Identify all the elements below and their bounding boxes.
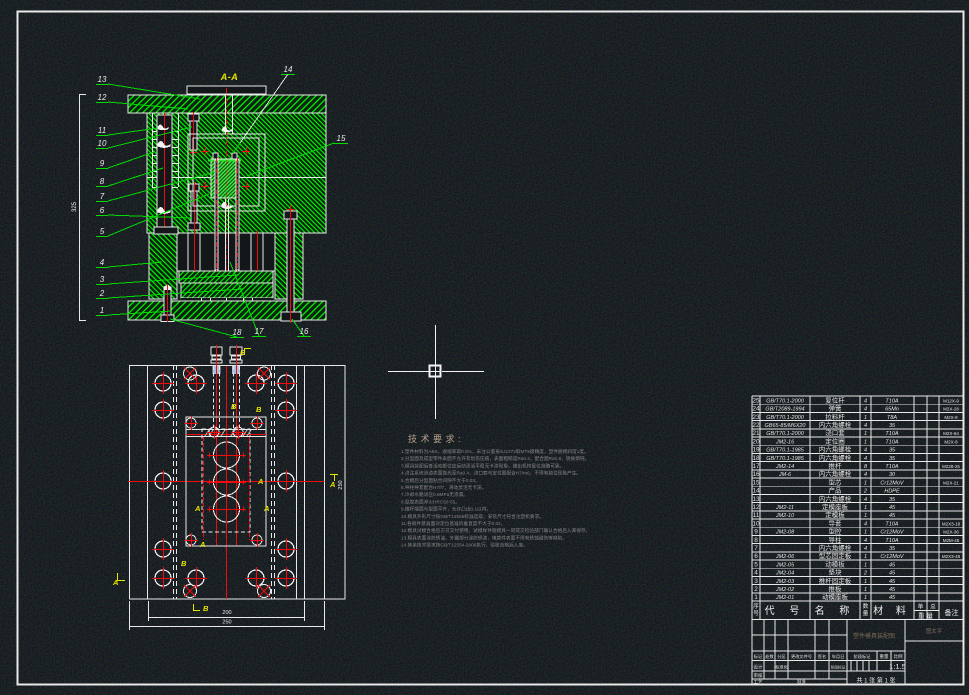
- svg-text:JM-6: JM-6: [778, 472, 792, 478]
- title block texts: [754, 653, 906, 685]
- svg-text:65Mn: 65Mn: [885, 407, 899, 413]
- moving clamp plate outline (plan): [130, 366, 346, 600]
- svg-text:250: 250: [222, 620, 231, 626]
- cavity circles: [207, 438, 246, 472]
- svg-text:T10A: T10A: [885, 464, 898, 470]
- svg-text:T10A: T10A: [885, 431, 898, 437]
- leader 7: [96, 172, 215, 202]
- svg-text:工艺: 工艺: [754, 679, 763, 684]
- svg-text:1: 1: [864, 513, 867, 519]
- svg-text:JM2-03: JM2-03: [775, 579, 795, 585]
- svg-text:12.模具试模合格后方可交付使用，试模样件随模具一同提交检验: 12.模具试模合格后方可交付使用，试模样件随模具一同提交检验部门确认合格后入库保…: [401, 527, 590, 534]
- bolt hole circles (plan): [152, 372, 174, 394]
- svg-text:4.浇注系统流道表面抛光至Ra0.4，浇口套与定位圈配合H7: 4.浇注系统流道表面抛光至Ra0.4，浇口套与定位圈配合H7/m6，不得有错位现…: [401, 470, 581, 477]
- leader 6: [96, 206, 192, 218]
- sprue bolt right (plan): [230, 345, 242, 546]
- svg-text:型芯固定板: 型芯固定板: [819, 551, 852, 560]
- svg-text:重量: 重量: [880, 653, 889, 660]
- svg-text:T8A: T8A: [887, 415, 897, 421]
- svg-text:比例: 比例: [894, 653, 903, 660]
- svg-text:7: 7: [100, 192, 105, 201]
- svg-text:签名: 签名: [818, 653, 826, 660]
- svg-text:总: 总: [930, 603, 936, 611]
- cavity plate (plan inner): [186, 417, 266, 546]
- red cooling channel marks: [201, 147, 250, 190]
- svg-text:2.分型面及成型零件表面不允许有划伤压痕，表面粗糙度Ra0.: 2.分型面及成型零件表面不允许有划伤压痕，表面粗糙度Ra0.4，配合面Ra0.8…: [401, 455, 589, 462]
- svg-text:设计: 设计: [754, 664, 763, 671]
- svg-text:14: 14: [284, 65, 293, 74]
- svg-text:JM2-16: JM2-16: [775, 439, 795, 445]
- plan dimension right: [338, 480, 344, 489]
- svg-text:共 1 张 第 1 张: 共 1 张 第 1 张: [856, 677, 895, 685]
- svg-text:号: 号: [753, 610, 759, 617]
- leader 2: [96, 289, 243, 299]
- svg-text:4: 4: [754, 570, 758, 577]
- svg-text:导套: 导套: [829, 518, 843, 527]
- return pin circles (tilted cross): [184, 367, 197, 380]
- svg-text:M2X-21: M2X-21: [943, 480, 959, 485]
- BOM grid: [752, 396, 964, 620]
- svg-text:内六角螺栓: 内六角螺栓: [819, 543, 852, 552]
- svg-text:M228-25: M228-25: [942, 464, 960, 469]
- svg-text:M2X3-48: M2X3-48: [942, 554, 961, 559]
- svg-text:35: 35: [889, 423, 896, 429]
- runner band hatch marks: [205, 430, 251, 436]
- svg-text:定模座板: 定模座板: [822, 502, 849, 511]
- leader 3: [96, 275, 238, 285]
- svg-text:浇口套: 浇口套: [825, 428, 845, 437]
- svg-text:1:1.5: 1:1.5: [889, 662, 906, 671]
- guide bushing: [152, 113, 179, 188]
- svg-text:JM2-11: JM2-11: [775, 505, 794, 511]
- runner centerlines (red): [186, 435, 266, 541]
- svg-text:45: 45: [889, 513, 896, 519]
- svg-text:4: 4: [864, 472, 867, 478]
- svg-text:标记: 标记: [754, 653, 763, 660]
- svg-text:1: 1: [864, 505, 867, 511]
- svg-text:45: 45: [889, 579, 896, 585]
- fixed clamping plate (top plate): [110, 95, 343, 113]
- core pin left: [215, 158, 218, 271]
- svg-text:图太平: 图太平: [926, 627, 943, 635]
- svg-text:名 称: 名 称: [815, 604, 856, 617]
- svg-text:13: 13: [752, 496, 760, 503]
- svg-text:推杆固定板: 推杆固定板: [819, 576, 852, 585]
- svg-text:A: A: [194, 504, 200, 513]
- svg-text:250: 250: [338, 480, 344, 489]
- leader 9: [96, 152, 154, 169]
- cavity insert frame: [188, 134, 265, 211]
- svg-text:2: 2: [754, 586, 758, 593]
- drawing title (dim): [853, 632, 895, 640]
- svg-text:导柱: 导柱: [829, 535, 843, 544]
- svg-text:内六角螺栓: 内六角螺栓: [819, 494, 852, 503]
- svg-text:GB/T2089-1994: GB/T2089-1994: [765, 407, 804, 413]
- svg-text:T10A: T10A: [885, 521, 898, 527]
- svg-text:T10A: T10A: [885, 538, 898, 544]
- svg-text:11: 11: [753, 512, 760, 519]
- svg-text:4: 4: [100, 258, 105, 267]
- svg-text:5: 5: [754, 561, 758, 568]
- svg-text:型芯: 型芯: [829, 477, 843, 486]
- svg-text:GB/T70.1-1985: GB/T70.1-1985: [766, 456, 805, 462]
- technical requirements notes: [401, 448, 590, 549]
- bottom left bolt: [161, 284, 174, 322]
- support pillar (right): [281, 205, 301, 323]
- svg-text:200: 200: [222, 610, 231, 616]
- plate edge lines (plan): [148, 365, 325, 599]
- svg-text:B: B: [203, 604, 209, 613]
- svg-text:325: 325: [72, 201, 78, 212]
- svg-text:垫块: 垫块: [829, 568, 843, 577]
- svg-text:年月日: 年月日: [832, 653, 845, 660]
- svg-text:动模板: 动模板: [825, 559, 845, 568]
- ejector retainer plate: [167, 271, 284, 283]
- svg-text:单: 单: [918, 603, 924, 611]
- section letter ticks: [117, 348, 338, 611]
- svg-text:9: 9: [754, 529, 758, 536]
- locating ring (top): [187, 86, 266, 94]
- return pin right: [251, 231, 263, 271]
- svg-text:标准化: 标准化: [775, 664, 788, 671]
- leader 16: [292, 319, 311, 337]
- svg-text:6: 6: [100, 206, 105, 215]
- guide pillar: [154, 113, 178, 234]
- svg-text:1: 1: [864, 480, 867, 486]
- svg-text:Cr12MoV: Cr12MoV: [880, 554, 905, 560]
- svg-text:A: A: [257, 477, 263, 486]
- leader 13: [96, 75, 200, 99]
- svg-text:GB65-85/M6X20: GB65-85/M6X20: [765, 423, 807, 429]
- svg-text:17: 17: [752, 463, 760, 470]
- svg-text:45: 45: [889, 595, 896, 601]
- svg-text:9: 9: [100, 159, 105, 168]
- plan dimensions bottom: [129, 601, 325, 630]
- svg-text:12: 12: [98, 93, 107, 102]
- svg-text:JM2-08: JM2-08: [775, 530, 795, 536]
- section title A-A: [220, 72, 239, 82]
- ejector plate hidden edges (dashed): [174, 365, 275, 599]
- svg-text:8: 8: [100, 177, 105, 186]
- svg-text:2: 2: [99, 289, 105, 298]
- svg-text:型腔: 型腔: [829, 527, 843, 536]
- svg-text:B: B: [181, 559, 187, 568]
- svg-text:2: 2: [863, 489, 867, 495]
- svg-text:GB/T70.1-2000: GB/T70.1-2000: [766, 415, 805, 421]
- svg-text:11: 11: [98, 126, 106, 135]
- svg-text:处数: 处数: [765, 653, 774, 660]
- svg-text:1.塑件材料为ABS，收缩率取0.5%，未注公差按SJ137: 1.塑件材料为ABS，收缩率取0.5%，未注公差按SJ1372取MT5级精度，塑…: [401, 448, 589, 455]
- svg-text:内六角螺栓: 内六角螺栓: [819, 420, 852, 429]
- svg-text:18: 18: [233, 328, 242, 337]
- svg-text:5.合模后分型面贴合间隙不大于0.03。: 5.合模后分型面贴合间隙不大于0.03。: [401, 477, 480, 484]
- svg-text:5: 5: [100, 227, 105, 236]
- svg-text:3: 3: [100, 275, 105, 284]
- svg-text:15: 15: [752, 479, 760, 486]
- svg-text:1: 1: [864, 554, 867, 560]
- svg-text:15: 15: [337, 134, 346, 143]
- svg-text:7: 7: [754, 545, 758, 552]
- svg-text:4: 4: [864, 521, 867, 527]
- svg-text:审核: 审核: [754, 672, 763, 679]
- ejector space: [177, 233, 275, 271]
- svg-text:8: 8: [754, 537, 758, 544]
- svg-text:1: 1: [864, 579, 867, 585]
- svg-text:13: 13: [98, 75, 107, 84]
- svg-text:10: 10: [752, 520, 760, 527]
- svg-text:3: 3: [754, 578, 758, 585]
- svg-text:45: 45: [889, 571, 896, 577]
- svg-text:技术要求:: 技术要求:: [408, 433, 464, 444]
- svg-text:JM2-04: JM2-04: [775, 571, 794, 577]
- svg-text:M2X-8: M2X-8: [944, 439, 958, 444]
- svg-text:10.模具外形尺寸按GB/T12555标准选取，安装尺寸符合: 10.模具外形尺寸按GB/T12555标准选取，安装尺寸符合注塑机要求。: [401, 513, 544, 520]
- svg-text:M2X-28: M2X-28: [943, 407, 959, 412]
- parting line: [147, 177, 326, 179]
- leader 14: [233, 65, 295, 153]
- svg-text:24: 24: [752, 406, 760, 413]
- svg-text:M2X-64: M2X-64: [943, 431, 959, 436]
- svg-text:复位杆: 复位杆: [825, 395, 845, 404]
- core insert: [172, 153, 277, 198]
- svg-text:量: 量: [863, 610, 869, 617]
- svg-text:JM2-01: JM2-01: [775, 595, 794, 601]
- svg-text:数: 数: [863, 602, 869, 610]
- svg-text:18: 18: [752, 455, 760, 462]
- svg-text:1: 1: [864, 595, 867, 601]
- svg-text:4: 4: [864, 538, 867, 544]
- leader 4: [96, 258, 162, 268]
- svg-text:25: 25: [752, 397, 760, 404]
- svg-text:4: 4: [864, 448, 867, 454]
- svg-text:产品: 产品: [829, 486, 842, 495]
- svg-text:动模座板: 动模座板: [822, 592, 849, 601]
- svg-text:23: 23: [752, 414, 760, 421]
- moving clamping plate (bottom plate): [109, 301, 343, 320]
- svg-text:4: 4: [864, 407, 867, 413]
- left vertical dimension line: [72, 94, 86, 321]
- svg-text:6: 6: [754, 553, 758, 560]
- svg-text:M2X-8: M2X-8: [944, 415, 958, 420]
- leader 18: [170, 319, 244, 338]
- svg-text:推板: 推板: [829, 584, 843, 593]
- svg-text:更改文件号: 更改文件号: [791, 653, 812, 660]
- svg-text:19: 19: [752, 447, 760, 454]
- company cell (dim): [926, 627, 943, 635]
- svg-text:10: 10: [98, 139, 107, 148]
- right spacer block: [209, 233, 364, 299]
- svg-text:35: 35: [889, 546, 896, 552]
- svg-text:30: 30: [889, 472, 896, 478]
- svg-text:内六角螺栓: 内六角螺栓: [819, 453, 852, 462]
- svg-text:M2X-36: M2X-36: [943, 530, 959, 535]
- svg-text:分区: 分区: [777, 653, 785, 660]
- svg-text:A: A: [329, 480, 335, 489]
- svg-text:35: 35: [889, 448, 896, 454]
- svg-text:弹簧: 弹簧: [829, 404, 843, 413]
- svg-text:内六角螺栓: 内六角螺栓: [819, 469, 852, 478]
- svg-text:GB/T70.1-1985: GB/T70.1-1985: [766, 448, 805, 454]
- leader 17: [230, 262, 266, 337]
- svg-text:内六角螺栓: 内六角螺栓: [819, 445, 852, 454]
- svg-text:备注: 备注: [945, 608, 959, 617]
- leader 12: [96, 93, 188, 109]
- svg-text:M12X-9: M12X-9: [943, 398, 959, 403]
- svg-text:45: 45: [889, 505, 896, 511]
- svg-text:8.型腔表面淬火HRC50-55。: 8.型腔表面淬火HRC50-55。: [401, 498, 460, 505]
- leader 11: [96, 126, 158, 136]
- svg-text:推杆: 推杆: [829, 461, 843, 470]
- svg-text:20: 20: [752, 438, 760, 445]
- svg-text:拉料杆: 拉料杆: [825, 412, 845, 421]
- svg-text:2: 2: [863, 571, 867, 577]
- leader 8: [96, 168, 163, 187]
- mold body (A/B plates): [27, 113, 446, 233]
- svg-text:T10A: T10A: [885, 398, 898, 404]
- svg-text:JM2-06: JM2-06: [775, 554, 795, 560]
- cavity plate corner screws: [184, 416, 198, 430]
- svg-text:GB/T70.1-2000: GB/T70.1-2000: [766, 431, 805, 437]
- svg-text:阶段标记: 阶段标记: [831, 665, 846, 670]
- svg-text:序: 序: [753, 602, 759, 610]
- svg-text:B: B: [231, 402, 237, 411]
- svg-text:JM2-05: JM2-05: [775, 562, 795, 568]
- plan centerlines: [128, 366, 325, 599]
- runner hidden outline (dashed rect): [202, 429, 250, 532]
- svg-text:JM2-10: JM2-10: [775, 513, 795, 519]
- return pin left: [188, 231, 200, 271]
- BOM rows text: [752, 395, 960, 601]
- svg-text:塑件模具装配图: 塑件模具装配图: [853, 632, 895, 640]
- svg-text:9.推杆端面与型面平齐，允许凸出0.1以内。: 9.推杆端面与型面平齐，允许凸出0.1以内。: [401, 506, 491, 513]
- svg-text:17: 17: [255, 327, 264, 336]
- BOM header row: [753, 601, 958, 620]
- svg-text:Cr12MoV: Cr12MoV: [880, 480, 905, 486]
- sprue bushing: [222, 88, 233, 209]
- svg-text:代 号: 代 号: [765, 605, 806, 617]
- svg-text:定位圈: 定位圈: [825, 436, 845, 445]
- left spacer block: [83, 233, 238, 299]
- svg-text:1: 1: [864, 562, 867, 568]
- svg-text:1: 1: [864, 439, 867, 445]
- svg-text:21: 21: [752, 430, 760, 437]
- svg-text:16: 16: [300, 327, 309, 336]
- crosshair cursor: [388, 325, 484, 419]
- svg-text:1: 1: [864, 431, 867, 437]
- svg-text:1: 1: [864, 587, 867, 593]
- svg-text:35: 35: [889, 497, 896, 503]
- svg-text:1: 1: [864, 530, 867, 536]
- socket bolt (upper left): [188, 112, 199, 156]
- leader 5: [96, 194, 209, 237]
- svg-text:14.其余技术要求按GB/T12554-2006执行，验收合: 14.其余技术要求按GB/T12554-2006执行，验收合格后入库。: [401, 542, 528, 549]
- svg-text:4: 4: [864, 456, 867, 462]
- svg-text:11.各板件基准面对定位基准的垂直度不大于0.02。: 11.各板件基准面对定位基准的垂直度不大于0.02。: [401, 520, 505, 527]
- svg-text:6.导柱导套配合H7/f7，滑动灵活无卡滞。: 6.导柱导套配合H7/f7，滑动灵活无卡滞。: [401, 484, 486, 491]
- sprue bolt left (plan): [211, 345, 222, 546]
- leader 10: [96, 127, 192, 149]
- svg-text:JM2-14: JM2-14: [775, 464, 794, 470]
- svg-text:批准: 批准: [797, 678, 806, 685]
- svg-text:4: 4: [864, 546, 867, 552]
- svg-text:GB/T70.1-2000: GB/T70.1-2000: [766, 398, 805, 404]
- svg-text:Cr12MoV: Cr12MoV: [880, 530, 905, 536]
- svg-text:1: 1: [100, 306, 104, 315]
- ejector plate: [166, 283, 286, 298]
- svg-text:M2M-45: M2M-45: [943, 538, 960, 543]
- svg-text:35: 35: [889, 456, 896, 462]
- svg-text:A-A: A-A: [220, 72, 239, 82]
- svg-text:A: A: [199, 540, 205, 549]
- title block grid: [752, 620, 964, 685]
- socket bolt (mid left): [188, 182, 200, 232]
- svg-text:1: 1: [864, 415, 867, 421]
- svg-text:1: 1: [754, 594, 758, 601]
- svg-text:JM2-02: JM2-02: [775, 587, 794, 593]
- svg-text:重量: 重量: [918, 612, 935, 620]
- svg-text:3.模具装配后各活动部位应运动灵活平稳无卡滞现象，推出机构复: 3.模具装配后各活动部位应运动灵活平稳无卡滞现象，推出机构复位准确可靠。: [401, 462, 564, 469]
- technical requirements heading: [408, 433, 464, 444]
- svg-text:7.冷却水路试压0.5MPa无渗漏。: 7.冷却水路试压0.5MPa无渗漏。: [401, 491, 468, 498]
- svg-text:HDPE: HDPE: [884, 489, 900, 495]
- svg-text:材 料: 材 料: [873, 604, 911, 617]
- svg-text:阶段标记: 阶段标记: [854, 653, 872, 660]
- sprue puller pin: [226, 160, 229, 271]
- svg-text:16: 16: [752, 471, 760, 478]
- svg-text:13.模具表面涂防锈油，外露部分涂防锈漆，电镀件表面不得有锈: 13.模具表面涂防锈油，外露部分涂防锈漆，电镀件表面不得有锈蚀碰伤等缺陷。: [401, 534, 567, 541]
- svg-text:B: B: [256, 405, 262, 414]
- svg-text:M2X3-18: M2X3-18: [942, 521, 961, 526]
- core pin right: [236, 158, 239, 271]
- svg-text:45: 45: [889, 562, 896, 568]
- svg-text:4: 4: [864, 423, 867, 429]
- svg-text:12: 12: [752, 504, 760, 511]
- section letters (yellow): [240, 348, 246, 357]
- svg-text:22: 22: [752, 422, 760, 429]
- svg-text:A: A: [263, 504, 269, 513]
- svg-text:45: 45: [889, 587, 896, 593]
- svg-text:T10A: T10A: [885, 439, 898, 445]
- svg-text:4: 4: [864, 398, 867, 404]
- svg-text:定模板: 定模板: [825, 510, 845, 519]
- pad strip under ejector plate: [181, 298, 273, 301]
- leader 15: [247, 134, 348, 176]
- leader 1: [96, 306, 172, 316]
- svg-text:4: 4: [864, 497, 867, 503]
- svg-text:14: 14: [752, 488, 760, 495]
- svg-text:B: B: [240, 348, 246, 357]
